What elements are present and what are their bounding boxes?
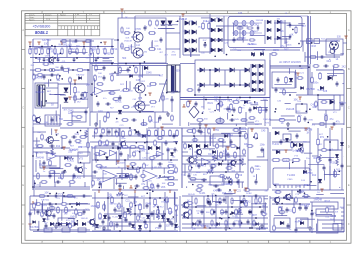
aux block: [72, 112, 86, 122]
node J82: [111, 63, 113, 65]
capacitor C94: [119, 95, 122, 100]
resistor R22: [237, 27, 244, 29]
node J177: [172, 216, 174, 218]
column wire: [251, 196, 253, 228]
capacitor C65: [336, 81, 339, 86]
diode D29: [200, 68, 204, 72]
wire: [190, 123, 262, 125]
resistor R228 (zigzag): [195, 157, 198, 164]
node J106: [253, 55, 255, 57]
wire: [90, 91, 95, 95]
power flag P23: [233, 190, 236, 193]
wire: [287, 185, 289, 188]
capacitor C87: [157, 183, 160, 188]
svg-text:1K: 1K: [281, 122, 284, 125]
svg-text:1K: 1K: [176, 205, 179, 207]
wire: [60, 40, 94, 42]
wire: [153, 154, 160, 156]
wire: [188, 122, 190, 126]
resistor R163: [143, 163, 146, 170]
rail: [92, 189, 178, 191]
wire: [120, 69, 131, 71]
column wire: [174, 192, 176, 230]
node J148: [99, 187, 101, 189]
svg-text:47u: 47u: [298, 115, 302, 117]
capacitor C55: [160, 37, 163, 42]
wire: [40, 156, 60, 168]
power flag P34: [188, 101, 191, 104]
resistor R93: [139, 203, 142, 211]
resistor R148: [61, 203, 68, 206]
power flag P15: [129, 185, 132, 188]
vertical rail: [269, 132, 271, 188]
svg-text:560: 560: [109, 92, 114, 95]
svg-text:10K: 10K: [293, 98, 298, 101]
svg-text:C945: C945: [287, 179, 293, 181]
wire: [272, 203, 310, 205]
wire: [221, 212, 227, 214]
wire: [343, 198, 345, 232]
diode D67: [300, 221, 303, 224]
wire: [69, 182, 71, 187]
diode D28: [64, 98, 68, 102]
capacitor C63: [229, 119, 234, 122]
svg-text:KA7500: KA7500: [339, 101, 347, 104]
power flag P11: [298, 97, 301, 100]
capacitor C77: [29, 211, 32, 216]
transformer core stripe: [38, 86, 40, 105]
resistor R225: [317, 156, 320, 163]
resistor R203: [102, 128, 105, 135]
resistor R174: [67, 123, 74, 126]
control block: [318, 95, 340, 110]
diode D15: [211, 38, 215, 42]
svg-text:47u: 47u: [211, 194, 215, 196]
power flag P10: [182, 104, 185, 107]
wire: [121, 168, 123, 180]
diode D106: [293, 143, 297, 147]
op-amp U14: [143, 170, 157, 182]
ground G1: [102, 226, 106, 230]
svg-text:R07: R07: [214, 96, 219, 99]
power flag P9: [73, 80, 76, 83]
node J165: [310, 181, 312, 183]
svg-text:VT3: VT3: [265, 122, 270, 124]
svg-text:2K2: 2K2: [67, 211, 71, 213]
capacitor C2: [57, 57, 60, 62]
node J12: [134, 129, 136, 131]
transistor Q13: [272, 197, 280, 204]
diode D31: [215, 68, 219, 72]
node J80: [74, 83, 76, 85]
resistor R66: [129, 146, 136, 149]
wire: [341, 207, 344, 209]
wire: [316, 213, 332, 215]
node J56: [194, 94, 196, 96]
node J161: [253, 136, 255, 138]
resistor R155: [275, 191, 282, 194]
node J100: [51, 59, 53, 61]
svg-text:22n: 22n: [328, 206, 331, 208]
node J128: [218, 103, 220, 105]
wire: [33, 180, 35, 188]
wire: [49, 172, 60, 174]
svg-text:47u: 47u: [280, 45, 285, 48]
wire: [116, 179, 118, 185]
svg-text:R12: R12: [155, 41, 160, 43]
wire: [173, 192, 175, 206]
svg-text:VT95: VT95: [135, 29, 141, 31]
wire: [302, 41, 304, 52]
svg-text:TL431: TL431: [273, 184, 280, 186]
power flag P31: [42, 167, 45, 170]
capacitor C71: [239, 130, 242, 135]
comparator block: [95, 146, 119, 160]
resistor R24: [237, 38, 244, 40]
svg-text:R07: R07: [44, 222, 49, 224]
node J115: [45, 100, 47, 102]
wire: [32, 39, 34, 47]
wire: [209, 136, 211, 146]
resistor R138: [142, 187, 149, 190]
resistor R23: [247, 27, 254, 29]
node J159: [227, 164, 229, 166]
wire: [56, 54, 58, 60]
sheet inner border: [25, 14, 347, 241]
node J50: [204, 163, 206, 165]
capacitor C119: [209, 201, 212, 206]
wire: [166, 48, 180, 50]
diode D61: [82, 222, 85, 225]
wire: [119, 176, 135, 178]
svg-text:2K2: 2K2: [31, 65, 35, 67]
wire: [341, 219, 344, 221]
svg-text:4K7: 4K7: [58, 193, 62, 195]
wire: [158, 27, 175, 29]
resistor R196: [259, 197, 262, 204]
wire: [129, 81, 131, 90]
wire: [146, 181, 148, 187]
rail: [182, 155, 246, 157]
svg-text:C45: C45: [132, 99, 137, 101]
svg-text:B: B: [348, 67, 350, 71]
node J162: [256, 137, 258, 139]
resistor R38: [149, 101, 157, 104]
border zone tick: [103, 11, 105, 14]
varistor diamond: [189, 106, 199, 118]
capacitor C126: [169, 219, 172, 224]
svg-text:Datum: Datum: [45, 13, 52, 16]
svg-text:R07: R07: [145, 165, 150, 167]
node J102: [134, 31, 136, 33]
wire: [83, 163, 85, 178]
resistor R41: [94, 74, 97, 81]
wire: [272, 141, 310, 143]
wire: [92, 135, 178, 137]
border zone tick: [227, 240, 229, 243]
svg-text:330: 330: [264, 191, 268, 193]
wire: [343, 42, 347, 44]
svg-text:B: B: [22, 67, 24, 71]
node J62: [159, 197, 161, 199]
resistor R127: [311, 76, 314, 83]
wire: [262, 49, 264, 54]
rail: [33, 147, 70, 149]
border zone tick: [62, 240, 64, 243]
node J58: [63, 195, 65, 197]
svg-text:2K2: 2K2: [120, 84, 125, 86]
resistor R158: [106, 140, 109, 147]
harness vertical: [343, 198, 345, 232]
node J132: [275, 108, 277, 110]
wire: [308, 164, 324, 166]
capacitor C53: [298, 205, 301, 210]
IC U25: [296, 218, 308, 228]
svg-text:D: D: [22, 144, 24, 148]
node J36: [47, 195, 49, 197]
node J105: [177, 20, 179, 22]
svg-text:330: 330: [312, 106, 317, 109]
capacitor C72: [198, 163, 201, 168]
node J44: [243, 195, 245, 197]
node J18: [76, 57, 78, 59]
wire: [151, 41, 153, 48]
resistor R112: [37, 74, 44, 77]
node J53: [111, 63, 113, 65]
wire: [32, 70, 34, 75]
wire: [128, 196, 139, 198]
node J73: [193, 135, 195, 137]
diode D78: [138, 225, 141, 228]
wire: [288, 130, 300, 132]
small part E2: [242, 20, 246, 25]
diode D103: [249, 211, 252, 214]
svg-text:22n: 22n: [57, 80, 60, 82]
node J188: [241, 222, 243, 224]
svg-text:1N4148: 1N4148: [255, 20, 263, 22]
wire: [151, 40, 153, 46]
diode D43: [252, 88, 256, 92]
wire: [334, 69, 343, 71]
capacitor C8: [233, 37, 236, 42]
wire: [258, 226, 260, 230]
svg-text:C45: C45: [201, 52, 206, 54]
wire: [248, 159, 268, 161]
resistor R36: [76, 116, 83, 119]
wire: [60, 222, 72, 224]
capacitor C11: [319, 56, 324, 59]
svg-text:2K2: 2K2: [64, 213, 68, 215]
wire: [38, 221, 40, 230]
node J89: [239, 127, 241, 129]
svg-text:D14: D14: [58, 177, 63, 180]
diode D23: [267, 36, 271, 40]
wire: [216, 25, 248, 27]
wire: [34, 209, 36, 215]
node J91: [229, 189, 231, 191]
diode D79: [174, 224, 177, 227]
wire: [166, 32, 180, 34]
wire: [139, 94, 141, 100]
resistor R108: [293, 206, 296, 214]
wire: [285, 103, 291, 105]
svg-text:R33: R33: [156, 178, 161, 180]
node J6: [97, 46, 99, 48]
svg-text:1K: 1K: [281, 30, 284, 33]
wire: [224, 192, 235, 194]
node J78: [209, 69, 211, 71]
capacitor C60: [131, 119, 136, 122]
svg-text:4K7: 4K7: [244, 203, 249, 205]
svg-text:D14: D14: [50, 63, 55, 65]
vertical rail: [269, 196, 271, 232]
capacitor C56: [49, 74, 54, 77]
node J187: [219, 202, 221, 204]
resistor R132: [40, 181, 47, 184]
node J87: [129, 127, 131, 129]
wire: [126, 81, 128, 90]
svg-text:C21: C21: [35, 184, 40, 186]
node J9: [72, 69, 74, 71]
resistor R126: [333, 65, 340, 68]
wire: [264, 100, 266, 126]
svg-text:330: 330: [50, 153, 55, 156]
wire: [196, 159, 244, 161]
svg-text:2K2: 2K2: [79, 153, 84, 155]
rail: [33, 175, 92, 177]
svg-text:47u: 47u: [336, 120, 341, 123]
ground G4: [260, 224, 264, 228]
svg-text:47u: 47u: [172, 52, 176, 54]
svg-text:1N4148: 1N4148: [120, 174, 129, 177]
wire: [30, 195, 90, 197]
svg-text:VD6: VD6: [161, 187, 166, 189]
svg-text:1K: 1K: [51, 103, 54, 106]
wire: [157, 128, 159, 136]
small part E5: [242, 30, 246, 35]
vertical rail: [269, 53, 271, 126]
node J61: [141, 213, 143, 215]
wire: [274, 22, 290, 24]
resistor R141: [184, 143, 187, 150]
svg-text:560: 560: [149, 119, 154, 122]
power flag P27: [250, 129, 253, 132]
diode D71: [320, 86, 323, 89]
border zone tick: [268, 240, 270, 243]
rail: [92, 225, 130, 227]
wire: [61, 210, 63, 221]
resistor R159: [154, 140, 157, 147]
svg-text:C: C: [348, 106, 350, 110]
wire: [104, 213, 164, 215]
small part E6: [250, 30, 254, 35]
wire: [341, 211, 344, 213]
diode D10: [192, 48, 196, 52]
capacitor C84: [165, 140, 168, 145]
resistor R3: [41, 48, 43, 55]
node J4: [69, 46, 71, 48]
wire: [222, 139, 224, 148]
resistor R85: [334, 170, 337, 178]
capacitor C83: [112, 141, 115, 146]
wire: [295, 70, 297, 75]
capacitor C120: [233, 221, 236, 226]
wire: [329, 75, 337, 77]
wire: [311, 72, 313, 95]
vertical rail: [181, 128, 183, 188]
capacitor C20: [304, 116, 307, 121]
svg-text:10K: 10K: [162, 183, 166, 185]
wire: [33, 140, 40, 142]
wire: [33, 131, 46, 133]
node J46: [291, 197, 293, 199]
wire: [201, 17, 211, 19]
harness vertical: [311, 202, 313, 233]
svg-text:R12: R12: [306, 204, 311, 206]
border zone tick: [185, 240, 187, 243]
resistor R116: [135, 66, 138, 73]
svg-text:330: 330: [242, 37, 247, 40]
svg-text:TL431: TL431: [115, 101, 122, 104]
diode D88: [79, 77, 82, 80]
node J193: [281, 223, 283, 225]
capacitor C26: [138, 131, 141, 136]
wire: [30, 229, 90, 231]
wire: [341, 223, 344, 225]
power flag P21: [133, 190, 136, 193]
resistor R156: [273, 225, 276, 232]
resistor R2: [35, 48, 37, 55]
node J152: [132, 166, 134, 168]
node J158: [191, 167, 193, 169]
wire: [225, 149, 227, 161]
wire: [202, 148, 215, 150]
node J191: [304, 192, 306, 194]
resistor R48: [239, 106, 242, 114]
wire: [134, 42, 136, 48]
svg-text:KA7500: KA7500: [76, 73, 85, 76]
resistor R125: [313, 65, 320, 68]
node J2: [41, 46, 43, 48]
wire: [146, 128, 148, 160]
rail: [89, 63, 91, 126]
node J27: [32, 155, 34, 157]
wire: [33, 188, 90, 190]
resistor R152: [166, 197, 169, 204]
wire: [339, 187, 341, 188]
wire: [247, 121, 254, 123]
diode D60: [74, 222, 77, 225]
loop harness: [316, 224, 338, 233]
capacitor C38: [81, 195, 86, 198]
svg-text:D14: D14: [301, 180, 306, 182]
IC U15: [213, 134, 230, 146]
resistor R44: [104, 115, 107, 122]
wire: [117, 64, 119, 77]
resistor R115: [119, 66, 122, 73]
capacitor C32: [201, 179, 206, 182]
resistor R229 (zigzag): [213, 155, 216, 162]
bus: [309, 64, 311, 95]
resistor R6: [61, 48, 63, 55]
node J74: [55, 203, 57, 205]
resistor R110: [121, 27, 123, 34]
wire: [218, 99, 220, 112]
node J59: [37, 229, 39, 231]
diode D69: [118, 110, 122, 114]
wire: [33, 123, 62, 125]
ground G7: [166, 112, 170, 116]
